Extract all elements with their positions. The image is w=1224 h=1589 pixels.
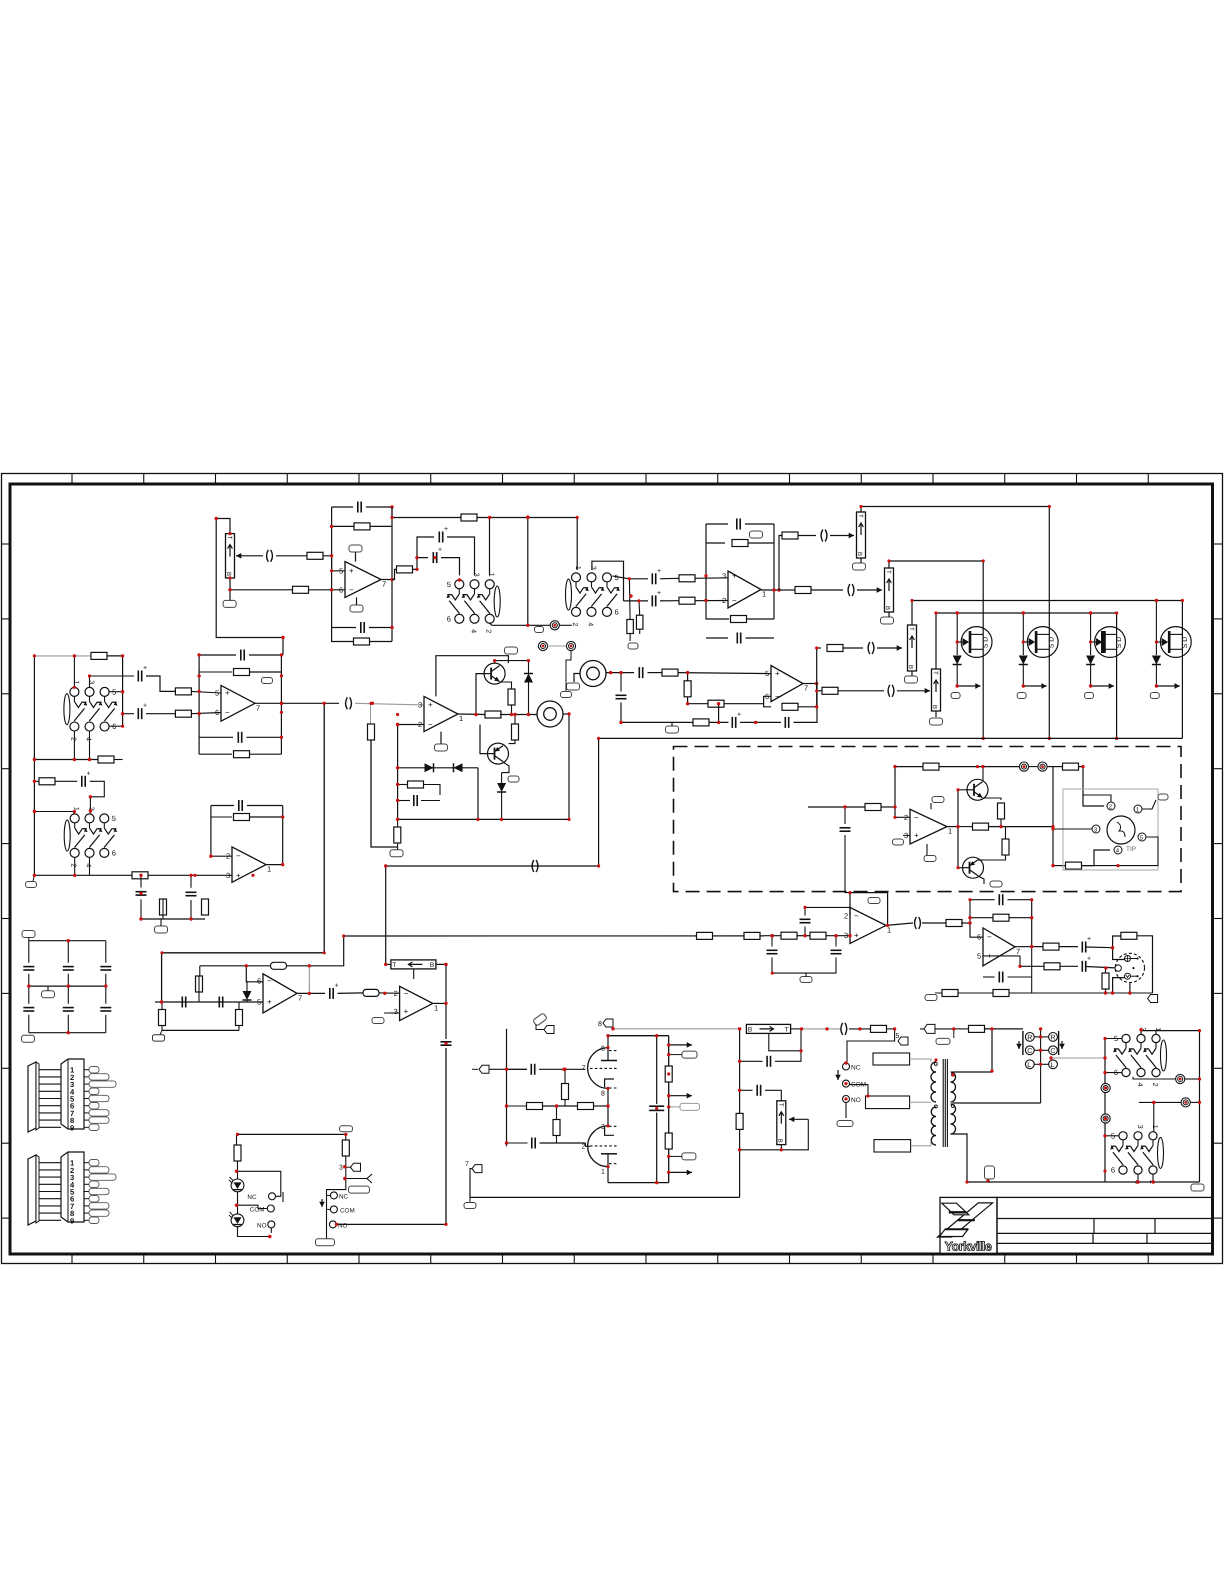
svg-text:+: + (87, 770, 91, 777)
wire R7 to U2 pin3 (695, 577, 728, 580)
resistor R3 (354, 523, 370, 530)
wire Q3 arrow (1091, 683, 1114, 689)
potentiometer P1 (225, 534, 235, 578)
svg-text:+: + (335, 982, 339, 989)
transformer T1 (931, 1059, 956, 1147)
wire R42 r (379, 992, 400, 994)
capacitor C14 polarized (732, 717, 735, 728)
junction dots U5 area (160, 702, 448, 1006)
svg-text:5: 5 (447, 580, 451, 589)
wire bottom bus right (988, 1181, 1200, 1183)
svg-text:2: 2 (69, 737, 76, 741)
wire C13 v (620, 673, 622, 692)
wire sw6 feed (1153, 1102, 1155, 1131)
transistor Q4 MOSFET (1156, 627, 1191, 658)
resistor R73 (744, 932, 760, 939)
wire U4a fb right (280, 655, 282, 754)
wire C36 r (338, 992, 364, 995)
wire U9 top stub (930, 803, 932, 809)
wire P7 right (791, 1028, 802, 1030)
power flag U1 bottom (350, 605, 363, 612)
svg-text:3: 3 (226, 871, 230, 880)
wire pin6 input (230, 589, 293, 591)
wire R30 r (250, 671, 282, 673)
junction dots capbank (27, 939, 107, 1034)
wire pin3 stub (390, 1012, 399, 1014)
resistor R38 (271, 962, 287, 969)
flag U5b pin3 (372, 1018, 384, 1024)
wire Q1 arrow (957, 683, 980, 689)
capacitor C51 (767, 1056, 770, 1067)
resistor R53 (993, 914, 1009, 921)
capacitor C17 (888, 685, 894, 697)
label box xfmr1 (873, 1053, 910, 1065)
svg-text:5: 5 (339, 566, 343, 575)
svg-text:3: 3 (590, 566, 597, 570)
svg-text:B: B (430, 962, 434, 969)
ground flag C26 (155, 926, 168, 933)
svg-text:7: 7 (804, 684, 808, 693)
wire gate bus (936, 612, 1117, 614)
resistor R30 (234, 669, 250, 676)
diode D7 (425, 763, 434, 772)
wire xlr right rail (1137, 936, 1153, 993)
connector pwr top (544, 1026, 554, 1034)
wire no1 stub (270, 1228, 272, 1233)
wire C8 r (745, 523, 774, 525)
op-amp U2 (722, 571, 766, 608)
svg-text:+: + (143, 703, 147, 710)
junction dot bus x740 (771, 934, 774, 937)
junction dots sw right (1103, 1028, 1155, 1184)
wire U1 fb top rail (332, 506, 353, 508)
wire R26 gnd (397, 843, 399, 850)
wire U5b out (433, 1002, 446, 1004)
wire branch up (417, 537, 434, 558)
wire P2 bot (860, 558, 862, 563)
resistor R1 (307, 552, 323, 559)
switch SW6 (1110, 1125, 1164, 1184)
wire cb v1a (67, 941, 69, 963)
flag pwr top1 (533, 1013, 548, 1026)
wire R27 right (107, 656, 123, 726)
capacitor C46 polarized (1082, 961, 1085, 972)
wire vert mid2 (445, 1048, 447, 1224)
wire cb v0a (28, 941, 30, 963)
wire relay feed (847, 1029, 895, 1063)
flag cap bank top (22, 931, 35, 938)
wire out1 stub (669, 1054, 682, 1056)
resistor R16 vertical (684, 681, 691, 697)
wire U2 fb cap2 rail (706, 637, 728, 639)
junction dots tube area (505, 1027, 615, 1145)
wire Q2 diode low (1022, 665, 1024, 687)
resistor R43 (865, 804, 881, 811)
wire C16 to P4 (877, 645, 902, 651)
wire xf2 (910, 1101, 931, 1103)
resistor R2 (293, 586, 309, 593)
wire tube2 pin2 (586, 1143, 591, 1146)
power block inner rail top (656, 1036, 658, 1104)
resistor R71 vertical (368, 724, 375, 740)
wire K6 r (1190, 1101, 1199, 1103)
vacuum tube V1a (582, 1046, 617, 1098)
wire fb low rail (688, 721, 693, 723)
wire C52 r (765, 1090, 781, 1101)
op-amp U4b (226, 847, 271, 882)
wire top right relay (920, 1028, 954, 1030)
wire U1 vcc stub (355, 552, 357, 562)
connector header H1 (28, 1059, 116, 1132)
capacitor C22 (241, 650, 244, 661)
wire P2 top (861, 507, 1049, 513)
resistor R68 (969, 1025, 985, 1032)
wire U3 out (458, 713, 486, 716)
wire cb v1d (67, 1015, 69, 1033)
power flag Q6 (508, 776, 519, 782)
wire C51 loop (740, 1060, 763, 1062)
resistor R67 (871, 1025, 887, 1032)
wire C39 bottom (845, 835, 850, 893)
wire U4b fb res (211, 816, 232, 818)
wire U1 fb left rail (331, 507, 333, 590)
resistor R29 (175, 710, 191, 717)
capacitor C26 (136, 892, 147, 895)
wire Q4 column (1181, 601, 1183, 739)
capacitor C48 (531, 1064, 534, 1075)
wire capbank top (28, 938, 30, 941)
wire C21 row (123, 713, 134, 715)
resistor R36 vertical (160, 899, 167, 915)
svg-text:8: 8 (601, 1090, 605, 1097)
junction dots rcl (1039, 1027, 1053, 1060)
wire din p1 (1142, 800, 1156, 809)
svg-text:−: − (854, 912, 859, 921)
wire pin1 drop (607, 1167, 609, 1183)
wire D9 v (246, 981, 248, 991)
potentiometer P7 horizontal (746, 1024, 790, 1033)
svg-text:9: 9 (70, 1123, 74, 1132)
wire SW1 col3 top (489, 518, 491, 576)
wire nc1 feed (237, 1171, 281, 1196)
op-amp U6 (765, 666, 808, 702)
wire led bottom (238, 1227, 272, 1237)
wire P8 wiper (789, 1116, 808, 1122)
wire U2 fb left (706, 524, 729, 619)
resistor R55 (1044, 963, 1060, 970)
flag U7 (868, 898, 880, 904)
flag rly top (340, 1126, 353, 1132)
wire pin5 stub (983, 955, 1020, 957)
svg-text:+: + (657, 590, 661, 597)
wire U3 top rail (436, 656, 509, 697)
antenna symbol (367, 1174, 372, 1183)
wire R47 r (989, 826, 1054, 828)
wire pwr bottom (470, 1175, 740, 1197)
resistor R17 (708, 700, 724, 707)
wire J3 out (606, 672, 634, 674)
connector xlr gnd (1148, 995, 1158, 1003)
wire RY1 no (845, 1103, 847, 1119)
svg-text:6: 6 (1111, 1166, 1115, 1175)
big flag RY3 (349, 1186, 370, 1193)
connector K2 (1038, 762, 1047, 771)
wire C2 right (366, 506, 392, 508)
svg-text:−: − (775, 692, 780, 701)
wire SW4 col2 bottom (89, 858, 91, 876)
resistor R65 vertical (665, 1133, 672, 1149)
ground flag rail A (26, 882, 37, 888)
wire out rail d (958, 826, 972, 828)
svg-text:L: L (1050, 1062, 1054, 1069)
wire R60 top (564, 1069, 566, 1083)
wire cb v0b (28, 974, 30, 986)
diode D2 (1019, 656, 1028, 665)
title block logo box (940, 1197, 997, 1253)
svg-text:+: + (444, 526, 448, 533)
capacitor C16 (868, 642, 874, 654)
wire fb right drop (308, 966, 310, 994)
wire R57 bot (1105, 989, 1107, 993)
resistor R18 (693, 719, 709, 726)
svg-text:5: 5 (765, 669, 769, 678)
wire C44 l (970, 899, 995, 901)
wire no2 (336, 1223, 446, 1225)
switch SW2 (566, 566, 621, 627)
wire Q10 emit (983, 798, 1001, 800)
wire U6 out (803, 683, 817, 685)
svg-text:1: 1 (601, 1169, 605, 1176)
svg-text:T: T (932, 671, 939, 675)
connector XLR J5 (1115, 953, 1145, 982)
junction dots SW1 area (415, 515, 529, 627)
wire pwr flag link (536, 1024, 544, 1030)
wire SW5 rail v (1104, 1039, 1106, 1183)
wire U7 in net (764, 935, 781, 937)
ground flag Q4 (1150, 693, 1159, 699)
svg-text:2: 2 (582, 1143, 586, 1150)
wire no2 up (445, 1048, 447, 1224)
wire bottom tie (141, 918, 205, 920)
wire R15 to U6 (678, 673, 771, 674)
flag din (1158, 794, 1168, 800)
capacitor C9 (737, 633, 740, 644)
diode D4 (1152, 656, 1161, 665)
wire C43 r (922, 922, 947, 924)
power block bottom edge (608, 1182, 669, 1184)
power flag Q11 (990, 881, 1002, 887)
DIN speaker connector (1063, 789, 1158, 870)
wire fb rail (895, 766, 923, 768)
wire xfmr sec mid (953, 1102, 1041, 1104)
Yorkville logo (938, 1203, 993, 1237)
wire tube left input (472, 1068, 478, 1070)
svg-text:T: T (392, 962, 396, 969)
capacitor C12 (639, 667, 642, 678)
wire R14 to C11 (811, 589, 843, 591)
svg-text:8: 8 (598, 1021, 602, 1028)
svg-text:6: 6 (215, 708, 219, 717)
wire U1 fb bot rail l (332, 590, 354, 642)
svg-text:+: + (267, 998, 272, 1007)
wire R25 r (424, 785, 441, 796)
flag out3 (682, 1153, 696, 1160)
wire SW3 pin5 (109, 691, 123, 693)
wire C48 r (539, 1068, 586, 1070)
wire Q4 gate drop (1155, 601, 1157, 643)
svg-text:6: 6 (447, 614, 451, 623)
wire R40 gnd (161, 1026, 163, 1031)
svg-text:B: B (225, 572, 232, 576)
svg-text:T: T (785, 1027, 789, 1034)
wire R12 r (747, 618, 775, 620)
wire U1 fb r2 rail l (332, 525, 354, 527)
wire K3 r (1185, 1078, 1200, 1080)
svg-text:−: − (404, 989, 409, 998)
wire SW3 col2 riser (90, 676, 135, 687)
svg-text:T: T (226, 536, 233, 540)
resistor R66 vertical (736, 1113, 743, 1129)
wire bottom drv (1053, 865, 1066, 867)
resistor R58 (942, 990, 958, 997)
ground flag U8 l (925, 995, 937, 1001)
wire bottom rail mid (398, 818, 569, 820)
wire R48 low (982, 855, 1006, 860)
resistor R6 (397, 566, 413, 573)
wire Q1 diode low (956, 665, 958, 687)
wire R1 to U1 (323, 556, 346, 571)
capacitor C41 (767, 950, 778, 953)
svg-text:+: + (737, 711, 741, 718)
wire r70 top (345, 1134, 347, 1140)
wire pin3 stub9 (903, 834, 910, 836)
wire led link (237, 1192, 239, 1214)
power block right edge (668, 1036, 670, 1183)
op-amp U9 (904, 809, 952, 844)
svg-text:3: 3 (722, 571, 726, 580)
wire U4a fb top (199, 654, 236, 656)
wire D6 low (501, 792, 503, 819)
wire r70 bot (327, 1156, 346, 1239)
svg-text:−: − (914, 813, 919, 822)
wire C26 low (140, 899, 142, 919)
wire U2 fb r2 (706, 542, 725, 544)
capacitor C30 (100, 967, 111, 970)
svg-text:+: + (854, 931, 859, 940)
op-amp U8 (977, 928, 1020, 966)
capacitor C34 (182, 997, 185, 1008)
wire C14 r (740, 721, 781, 723)
wire R68 l (954, 1028, 969, 1030)
svg-text:3: 3 (844, 931, 848, 940)
wire SW4 col1 feed (34, 812, 73, 814)
resistor R44 (923, 763, 939, 770)
svg-text:9: 9 (70, 1216, 74, 1225)
svg-text:NC: NC (339, 1193, 349, 1200)
resistor R47 (973, 823, 989, 830)
capacitor C50 (649, 1106, 664, 1110)
wire pin8 to pin3 (607, 1088, 609, 1126)
wire xlr pin2 (1113, 948, 1125, 960)
wire din p5 (1082, 837, 1159, 866)
resistor R14 (795, 587, 811, 594)
svg-text:6: 6 (977, 933, 981, 942)
svg-text:−: − (225, 708, 230, 717)
wire cb v2c (105, 986, 107, 1004)
svg-text:3: 3 (418, 700, 422, 709)
svg-text:−: − (732, 596, 737, 605)
wire driver col bus (1052, 767, 1054, 866)
wire C19 l (398, 800, 410, 802)
svg-text:TIP: TIP (1126, 846, 1136, 853)
flag cap bank mid (42, 991, 55, 998)
wire arrow out1 (669, 1042, 692, 1048)
connector pin8 (603, 1019, 613, 1027)
wire xlr pin3 (1113, 978, 1125, 993)
wire R13 to C10 (798, 535, 816, 537)
capacitor C53 (841, 1023, 847, 1035)
ground flag Q1 (951, 693, 960, 699)
resistor R22 vertical (508, 689, 515, 705)
wire U4a fb res2 (199, 753, 232, 755)
wire SW2 feed1 (576, 518, 578, 571)
wire R54 r (1059, 946, 1078, 948)
svg-text:+: + (732, 571, 737, 580)
wire pin3b stub (346, 1166, 351, 1168)
wire pwr7 in (470, 1169, 472, 1175)
wire C44 r (1008, 899, 1032, 901)
potentiometer P4 (907, 625, 917, 671)
wire right bus (739, 1029, 741, 1198)
svg-text:6: 6 (615, 607, 619, 616)
wire rail x324 (162, 703, 325, 1002)
transistor Q11 (963, 857, 984, 878)
svg-text:NC: NC (851, 1065, 861, 1072)
junction dots U4b area (33, 758, 285, 877)
resistor R45 (1063, 763, 1079, 770)
wire bias rail (371, 740, 398, 847)
wire U8 out (1015, 946, 1044, 948)
wire k1k2 (1029, 766, 1038, 768)
wire C53 r (849, 1028, 871, 1030)
resistor R62 (578, 1103, 594, 1110)
svg-text:4: 4 (85, 863, 92, 867)
svg-text:NO: NO (257, 1222, 267, 1229)
svg-text:7: 7 (298, 993, 302, 1002)
ground flag P4 (905, 676, 918, 683)
resistor R54 (1043, 943, 1059, 950)
wire C11 to P3 (857, 587, 882, 593)
wire U1 fb right rail (391, 507, 393, 642)
wire U4b fb right (282, 806, 284, 865)
capacitor C6 polarized (652, 573, 655, 584)
resistor R70 vertical (342, 1140, 349, 1156)
resistor R26 vertical (394, 827, 401, 843)
resistor R12 (731, 616, 747, 623)
ground flag P5 (930, 718, 943, 725)
wire U4a fb cap2 (199, 736, 233, 738)
ground flag Q3 (1085, 693, 1094, 699)
wire P6 left (386, 963, 391, 965)
svg-text:T: T (885, 570, 892, 574)
wire shield gnd (566, 651, 571, 691)
dashed amp module box (674, 747, 1182, 892)
wire U4a fb r rail (199, 671, 232, 673)
wire cb v1b (67, 974, 69, 986)
junction dots mosfet gates (956, 599, 1159, 740)
power block top edge (608, 1035, 669, 1037)
wire P6 right (436, 964, 446, 1003)
